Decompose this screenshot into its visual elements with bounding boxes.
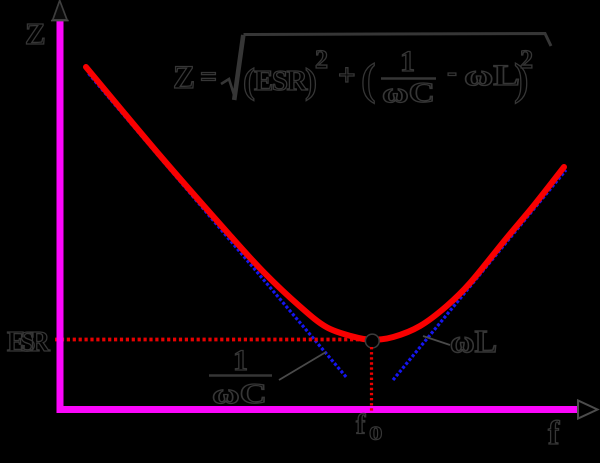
svg-text:2: 2 (315, 45, 328, 74)
svg-text:o: o (369, 416, 383, 446)
magenta x axis (57, 406, 578, 413)
svg-text:f: f (548, 415, 560, 452)
svg-text:1: 1 (400, 45, 415, 78)
svg-text:1: 1 (233, 344, 248, 377)
magenta y axis (57, 21, 64, 413)
y axis arrowhead (53, 1, 67, 20)
svg-text:=: = (200, 60, 217, 93)
red dashed horizontal line at ESR level (55, 338, 366, 342)
formula (173, 34, 551, 110)
red impedance curve Z (86, 67, 564, 340)
blue asymptote 1/wC (left) (89, 74, 348, 379)
svg-text:ωL: ωL (464, 59, 520, 92)
svg-text:ωL: ωL (450, 323, 497, 359)
svg-text:-: - (447, 55, 457, 88)
pointer line to wL curve (423, 336, 450, 345)
svg-text:ωC: ωC (212, 378, 267, 410)
svg-text:Z: Z (25, 16, 46, 51)
svg-text:(: ( (361, 55, 376, 104)
svg-text:f: f (356, 410, 366, 441)
pointer line to 1/wC curve (279, 352, 326, 380)
svg-text:+: + (338, 57, 356, 92)
x axis arrowhead (578, 401, 598, 419)
svg-text:ESR: ESR (254, 65, 308, 97)
svg-text:2: 2 (520, 45, 533, 74)
svg-text:ωC: ωC (382, 78, 435, 109)
black dot at resonance point (365, 334, 379, 348)
svg-text:Z: Z (173, 60, 195, 96)
label 1/wC fraction (209, 344, 272, 410)
red dotted vertical line at f0 (370, 347, 373, 413)
radical bar with end tick (244, 34, 552, 47)
radical sign (221, 79, 235, 98)
blue asymptote wL (right) (393, 170, 566, 380)
